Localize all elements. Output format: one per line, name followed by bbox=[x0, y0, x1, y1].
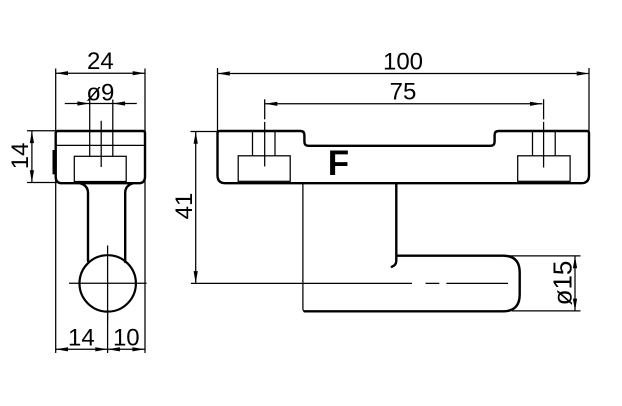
svg-text:24: 24 bbox=[87, 48, 114, 75]
svg-text:ø15: ø15 bbox=[548, 261, 578, 306]
svg-text:F: F bbox=[328, 144, 349, 183]
svg-text:14: 14 bbox=[7, 143, 34, 170]
svg-text:41: 41 bbox=[171, 193, 198, 220]
svg-text:75: 75 bbox=[390, 79, 417, 106]
svg-text:100: 100 bbox=[383, 49, 423, 76]
svg-text:10: 10 bbox=[113, 324, 140, 351]
svg-text:ø9: ø9 bbox=[86, 79, 114, 106]
svg-text:14: 14 bbox=[68, 324, 95, 351]
